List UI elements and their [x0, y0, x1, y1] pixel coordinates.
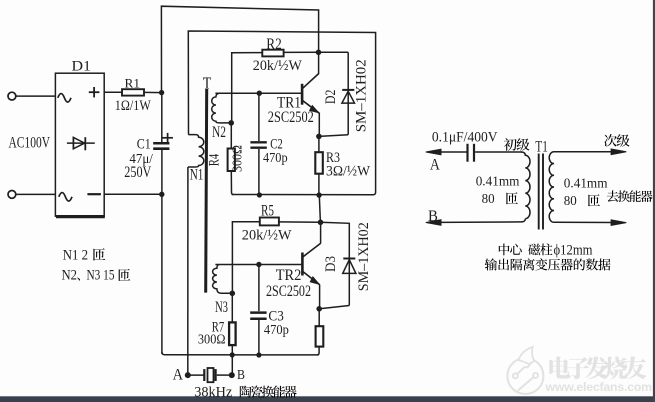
- wire down to lower node: [319, 195, 320, 222]
- right edge dark line: [653, 0, 655, 402]
- node collector TR1: [316, 50, 322, 56]
- resistor R3: [315, 152, 323, 174]
- winding N2: [212, 93, 231, 123]
- wire D3 top: [321, 222, 350, 305]
- svg-text:250V: 250V: [124, 164, 152, 181]
- transistor TR2: [301, 253, 304, 276]
- svg-text:1Ω/1W: 1Ω/1W: [115, 98, 152, 114]
- diode inside D1: [67, 142, 95, 144]
- wire C2 bottom: [258, 149, 260, 195]
- wire R5 right: [279, 221, 321, 223]
- wire N1 down to A: [187, 167, 189, 375]
- wire R3 down: [318, 174, 320, 195]
- svg-text:38kHz: 38kHz: [194, 384, 233, 400]
- node B: [229, 372, 235, 378]
- svg-text:470p: 470p: [264, 322, 289, 337]
- wire R2 left: [232, 53, 263, 123]
- svg-text:N1 2: N1 2: [63, 247, 88, 263]
- svg-text:ϕ12mm: ϕ12mm: [554, 242, 593, 258]
- svg-text:300Ω: 300Ω: [230, 145, 245, 172]
- wire to R3: [318, 136, 320, 152]
- svg-text:N2: N2: [62, 268, 78, 284]
- watermark brand text: [549, 356, 646, 379]
- node N2/R4: [228, 120, 234, 126]
- wire R1 to node: [144, 91, 162, 93]
- terminal upper: [8, 92, 16, 100]
- rectifier D1 box: [55, 73, 104, 216]
- diode D3: [343, 258, 355, 260]
- node R1/C1: [159, 90, 164, 95]
- wire R5 left: [232, 222, 259, 294]
- wire D2 top: [319, 51, 349, 53]
- svg-text:AC100V: AC100V: [9, 135, 51, 152]
- wire top loop: [161, 6, 318, 92]
- svg-text:20k/½W: 20k/½W: [242, 228, 293, 244]
- label secondary: [604, 134, 629, 147]
- node C1/D1-: [159, 192, 164, 197]
- svg-text:300Ω: 300Ω: [198, 332, 226, 347]
- svg-text:T1: T1: [535, 139, 547, 156]
- svg-text:T: T: [203, 73, 212, 92]
- wire R2 right: [284, 51, 319, 53]
- node R3/rail: [316, 192, 321, 197]
- svg-text:B: B: [237, 368, 245, 383]
- bottom dark bar: [0, 396, 655, 402]
- plus: [89, 91, 100, 93]
- resistor R6: [316, 326, 324, 346]
- resistor R1: [122, 89, 144, 95]
- svg-text:R5: R5: [261, 203, 274, 220]
- wire C1 down: [161, 150, 163, 194]
- resistor R4: [228, 149, 235, 172]
- node C2/rail: [257, 192, 262, 197]
- capacitor C2: [250, 141, 266, 143]
- wire C3 top: [258, 265, 260, 312]
- svg-text:N3: N3: [215, 299, 228, 316]
- secondary winding: [549, 152, 554, 223]
- wire D1-: [104, 193, 162, 195]
- wire down to rail: [161, 194, 163, 354]
- svg-text:TR2: TR2: [276, 267, 302, 284]
- node emitter/D2/R3: [316, 134, 322, 140]
- note output transformer data: [485, 258, 611, 270]
- svg-text:R1: R1: [125, 76, 141, 90]
- resistor R5: [260, 218, 279, 226]
- ac symbol bottom: [59, 193, 72, 202]
- node emitter2/D3/R6: [316, 306, 322, 312]
- transistor TR1: [301, 84, 304, 105]
- svg-text:D1: D1: [72, 59, 92, 75]
- svg-text:N3 15: N3 15: [87, 268, 115, 284]
- wire emitter2 down: [319, 285, 321, 309]
- wire: [16, 193, 56, 195]
- arrow A out: [426, 149, 441, 155]
- node A: [185, 372, 191, 378]
- wire R4 down: [231, 171, 233, 195]
- svg-text:D3: D3: [323, 256, 339, 272]
- terminal lower: [8, 191, 16, 199]
- node base2/C3: [256, 262, 261, 267]
- secondary top wire: [554, 151, 614, 153]
- wire: [16, 95, 56, 97]
- node rail/R7: [230, 352, 235, 357]
- wire N3 to R7: [231, 293, 233, 322]
- svg-text:0.41mm: 0.41mm: [476, 173, 520, 188]
- svg-text:3Ω/½W: 3Ω/½W: [326, 164, 371, 180]
- ground rail: [162, 352, 319, 355]
- svg-text:A: A: [430, 157, 441, 174]
- node C3/rail: [256, 352, 261, 357]
- base wire TR2: [215, 264, 301, 266]
- wire R7 down: [231, 345, 233, 375]
- svg-text:0.1μF/400V: 0.1μF/400V: [432, 129, 498, 145]
- node base/C2: [257, 91, 262, 96]
- wire D1+ to R1: [104, 91, 122, 93]
- transformer core T: [206, 89, 207, 293]
- node N3/R5/R7: [230, 291, 236, 297]
- primary winding: [521, 152, 530, 219]
- svg-text:C1: C1: [137, 137, 151, 153]
- svg-text:0.41mm: 0.41mm: [564, 175, 608, 190]
- ac symbol top: [58, 94, 71, 103]
- diode D2: [342, 89, 354, 91]
- node collector TR2: [318, 220, 324, 226]
- svg-text:N2: N2: [212, 124, 226, 141]
- svg-text:80: 80: [482, 192, 495, 207]
- svg-text:SM–1XH02: SM–1XH02: [356, 222, 372, 291]
- svg-text:B: B: [428, 208, 438, 225]
- svg-text:R2: R2: [266, 36, 282, 53]
- svg-text:2SC2502: 2SC2502: [268, 109, 314, 126]
- capacitor C3: [250, 311, 266, 314]
- wire N2 to R4: [230, 123, 232, 149]
- watermark logo circle: [507, 358, 543, 394]
- wire to R6: [318, 309, 320, 326]
- svg-text:2SC2502: 2SC2502: [266, 283, 311, 300]
- base wire TR1: [215, 92, 301, 94]
- capacitor C1: [153, 142, 169, 145]
- svg-text:R4: R4: [207, 153, 223, 166]
- wire A to crystal: [188, 374, 204, 376]
- core T1: [538, 154, 540, 230]
- secondary bottom wire: [554, 221, 614, 223]
- note core size: [499, 244, 553, 256]
- resistor R7: [229, 322, 236, 345]
- wire cap to primary: [475, 151, 522, 153]
- svg-text:20k/½W: 20k/½W: [253, 58, 303, 74]
- label primary: [504, 138, 530, 151]
- minus: [87, 193, 101, 195]
- capacitor 0.1uF: [466, 144, 468, 162]
- svg-text:www.elecfans.com: www.elecfans.com: [545, 380, 653, 394]
- wire into C1: [161, 93, 163, 143]
- wire C2 top: [258, 93, 260, 141]
- transducer 38kHz: [203, 369, 205, 381]
- arrow B out: [426, 220, 441, 226]
- resistor R2: [262, 50, 283, 57]
- svg-text:470p: 470p: [263, 150, 288, 165]
- winding N1: [188, 135, 204, 167]
- svg-text:SM–1XH02: SM–1XH02: [354, 59, 370, 132]
- svg-text:80: 80: [564, 194, 577, 209]
- svg-text:A: A: [173, 366, 184, 383]
- wire R6 to rail: [317, 347, 319, 355]
- wire second loop top: [188, 31, 375, 195]
- wire C3 bottom: [258, 320, 260, 355]
- wire primary bottom to B arrow: [440, 219, 525, 223]
- winding N3: [213, 265, 233, 294]
- svg-text:D2: D2: [323, 89, 339, 104]
- wire emitter down: [318, 113, 320, 137]
- label to transducer: [607, 190, 653, 202]
- svg-text:N1: N1: [190, 167, 204, 184]
